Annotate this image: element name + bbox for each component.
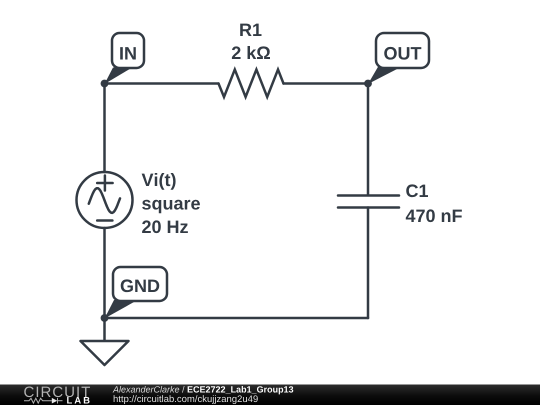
node OUT flag tail (368, 66, 400, 84)
node OUT junction dot (364, 80, 372, 88)
voltage source V1 waveform label (142, 200, 200, 213)
capacitor C1 name label (406, 184, 428, 197)
node IN flag box (112, 33, 144, 68)
CircuitLab logo wordmark LAB (67, 397, 89, 404)
capacitor C1 bottom plate (338, 206, 399, 209)
node IN flag tail (105, 67, 135, 85)
node GND flag box (113, 267, 167, 301)
voltage source V1 minus sign (97, 219, 112, 222)
wire right lower (capacitor C1 bottom plate to bottom rail) (367, 208, 370, 319)
node GND junction dot (101, 314, 109, 322)
resistor R1 value label (232, 46, 270, 59)
capacitor C1 value label (406, 209, 462, 222)
footer credit line (113, 386, 180, 393)
node GND flag tail (105, 300, 139, 319)
voltage source V1 body (77, 172, 133, 228)
ground symbol (81, 341, 129, 365)
wire ground stub (103, 318, 106, 341)
voltage source V1 frequency label (142, 220, 188, 233)
voltage source V1 sine wave (89, 188, 120, 213)
voltage source V1 name label (142, 173, 176, 190)
node IN junction dot (101, 80, 109, 88)
wire right upper (node OUT to capacitor C1 top plate) (367, 84, 370, 196)
CircuitLab logo resistor-diode squiggle (24, 398, 63, 404)
resistor R1 name label (240, 24, 261, 36)
node IN flag text (120, 47, 136, 59)
capacitor C1 top plate (338, 194, 399, 197)
node GND flag text (121, 279, 160, 292)
footer url line (114, 395, 258, 404)
resistor R1 zigzag (219, 70, 284, 98)
voltage source V1 plus sign (97, 182, 112, 185)
node OUT flag text (384, 47, 421, 60)
wire resistor R1 to node OUT (284, 82, 369, 85)
wire bottom rail (105, 317, 369, 320)
wire top left (node IN to resistor R1 left lead) (105, 82, 219, 85)
wire left upper (node IN to source V1 top) (103, 84, 106, 173)
CircuitLab logo wordmark CIRCUIT (24, 387, 90, 398)
node OUT flag box (376, 33, 429, 68)
wire left lower (source V1 bottom to node GND) (103, 228, 106, 318)
